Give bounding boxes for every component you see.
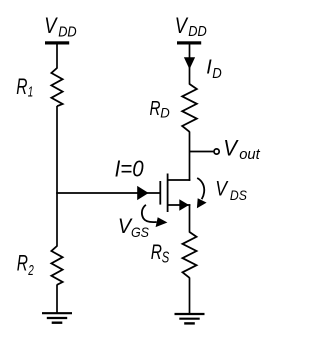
- svg-text:DD: DD: [188, 23, 207, 40]
- label R1: [16, 74, 33, 101]
- label VDD (left): [44, 13, 77, 40]
- wire right vertical (source corner to RS): [189, 204, 191, 232]
- svg-text:V: V: [175, 13, 189, 38]
- label RD: [150, 98, 170, 121]
- svg-text:D: D: [212, 66, 222, 82]
- resistor R2: [51, 246, 62, 285]
- label R2: [17, 250, 35, 279]
- wire left vertical middle (R1 to R2, through gate node): [56, 106, 58, 247]
- arrowhead ID current arrow: [184, 57, 195, 69]
- svg-text:D: D: [160, 105, 170, 121]
- arrowhead I=0 on gate wire: [137, 186, 148, 200]
- transistor Q1 source arrowhead: [179, 199, 189, 211]
- svg-text:DS: DS: [230, 187, 248, 203]
- resistor R1: [51, 68, 62, 106]
- label VDD (right): [175, 13, 207, 40]
- wire left vertical bottom (R2 to ground): [56, 285, 58, 314]
- label VDS: [215, 177, 247, 204]
- transistor Q1 drain lead: [168, 179, 191, 181]
- svg-text:S: S: [162, 250, 170, 267]
- transistor Q1 (NMOS) gate plate: [159, 181, 161, 205]
- ground (left): [42, 313, 72, 323]
- svg-text:R: R: [150, 98, 161, 120]
- svg-text:2: 2: [28, 262, 35, 279]
- svg-text:I=0: I=0: [115, 156, 144, 182]
- label ID: [206, 57, 222, 82]
- transistor Q1 channel bar: [167, 174, 169, 213]
- wire right vertical top (VDD bar to RD): [189, 44, 191, 84]
- svg-text:1: 1: [28, 84, 34, 100]
- resistor RD: [182, 84, 197, 132]
- svg-text:out: out: [239, 146, 260, 163]
- svg-text:R: R: [16, 74, 27, 99]
- ground (right): [175, 314, 205, 323]
- arrow VDS (curved, drain to source): [197, 178, 207, 208]
- arrow VGS (curved, gate to source): [142, 205, 168, 227]
- wire gate horizontal (node to gate): [56, 192, 160, 194]
- svg-text:R: R: [151, 241, 162, 264]
- wire right vertical bottom (RS to ground): [189, 278, 191, 314]
- label Vout: [223, 136, 260, 164]
- svg-text:I: I: [206, 57, 212, 79]
- wire left vertical top (VDD bar to R1): [56, 44, 58, 68]
- power symbol VDD (right) bar: [177, 41, 201, 44]
- transistor Q1 source lead: [168, 204, 191, 206]
- svg-text:DD: DD: [58, 23, 77, 40]
- svg-text:V: V: [44, 13, 58, 38]
- terminal Vout open circle: [214, 149, 219, 154]
- svg-text:R: R: [17, 250, 28, 275]
- resistor RS: [183, 232, 197, 278]
- wire Vout stub: [190, 151, 214, 153]
- power symbol VDD (left) bar: [45, 41, 69, 44]
- label RS: [151, 241, 170, 267]
- wire right vertical (RD to drain corner): [189, 132, 191, 181]
- svg-text:V: V: [223, 136, 239, 161]
- svg-text:GS: GS: [131, 224, 150, 240]
- label VGS: [118, 214, 150, 240]
